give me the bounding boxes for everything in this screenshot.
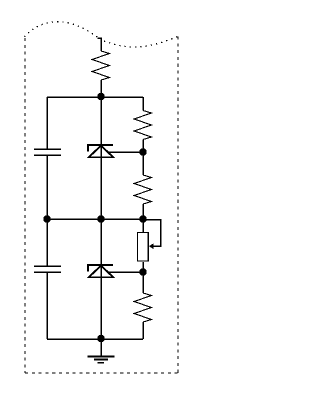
wire: right rail top lead — [142, 97, 144, 111]
potentiometer RV1 wiper loop wire — [143, 220, 161, 247]
node junction D1/right rail — [140, 149, 147, 156]
potentiometer RV1 wiper arrowhead — [149, 243, 154, 249]
wire: D2 to right rail y=272 — [107, 271, 143, 273]
wire: middle horizontal bus y=219 — [47, 218, 143, 220]
boundary top wavy dotted line, right of wire entry — [104, 37, 178, 48]
node junction at top of middle rail — [98, 93, 105, 100]
wire: left rail between C1 and C2 — [46, 155, 48, 266]
capacitor C2 plates — [34, 266, 61, 272]
capacitor C1 plates — [34, 149, 61, 155]
boundary bottom dashed border — [25, 372, 178, 374]
zener diode D1 triangle — [89, 146, 113, 158]
zener diode D2 triangle — [89, 266, 113, 278]
wire: left rail lower segment — [46, 272, 48, 339]
boundary right dashed border — [177, 37, 179, 374]
resistor R3 (lower right) — [134, 293, 152, 322]
potentiometer RV1 body — [137, 232, 148, 261]
wire: right rail R2 to pot — [142, 204, 144, 232]
wire: right rail bottom lead — [142, 322, 144, 339]
node junction right rail mid bus — [140, 216, 147, 223]
node junction ground — [98, 335, 105, 342]
ground stem — [100, 339, 102, 357]
wire: left rail upper segment — [46, 97, 48, 149]
wire: top horizontal bus y=97 — [47, 96, 143, 98]
wire: right rail between R1 and R2 — [142, 140, 144, 176]
resistor R1 (upper right) — [134, 111, 152, 140]
resistor R2 (mid right) — [134, 175, 152, 204]
zener diode D2 cathode bar with left hook — [87, 265, 113, 272]
resistor R-top (series input resistor) — [92, 51, 110, 80]
wire: D1 to right rail y=152 — [107, 151, 143, 153]
zener diode D1 cathode bar with left hook — [87, 145, 113, 152]
wire: right rail pot to R3 — [142, 262, 144, 293]
node junction D2/right rail — [140, 269, 147, 276]
wire: bottom horizontal bus y=339 — [47, 338, 143, 340]
boundary top wavy dotted line, left of wire entry — [25, 22, 99, 38]
boundary left dashed border — [24, 38, 26, 373]
wire: middle vertical rail x=101 (through both diodes) — [100, 80, 102, 339]
ground symbol bars — [88, 356, 115, 362]
node junction middle rail mid bus — [98, 216, 105, 223]
wire: top supply entry stub with break tick — [98, 38, 102, 52]
node junction left rail mid bus — [44, 216, 51, 223]
